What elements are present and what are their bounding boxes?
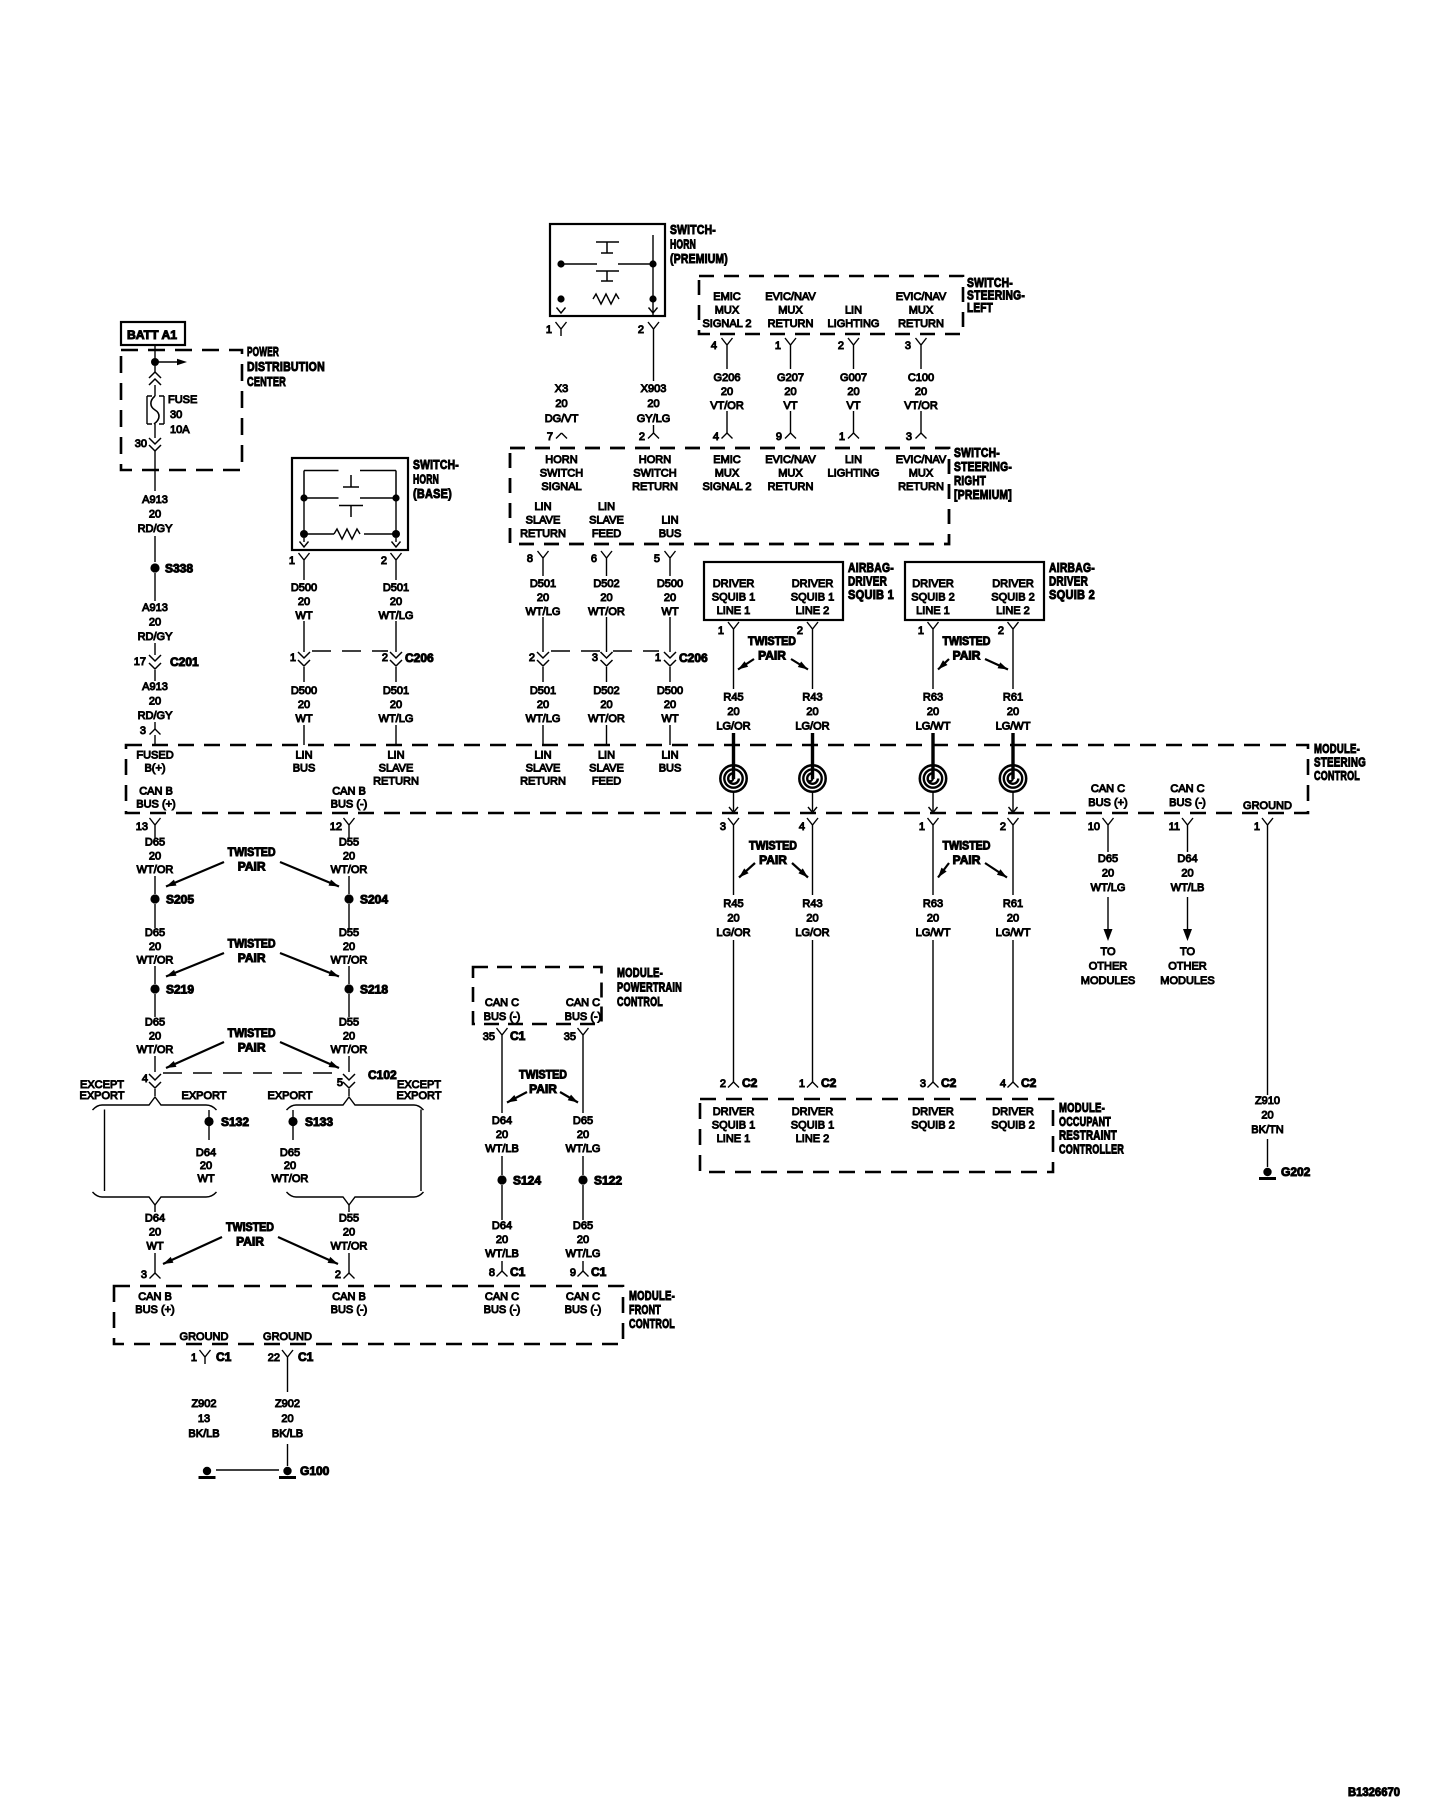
svg-text:SQUIB 1: SQUIB 1 [791, 592, 834, 604]
splice S204 [344, 894, 353, 903]
svg-text:SLAVE: SLAVE [526, 515, 561, 527]
wire below clockspring [812, 792, 814, 811]
svg-text:(PREMIUM): (PREMIUM) [670, 251, 728, 266]
svg-text:DRIVER: DRIVER [912, 578, 954, 590]
wire base left vertical [303, 498, 305, 531]
svg-text:HORN: HORN [670, 237, 696, 252]
svg-text:8: 8 [527, 553, 533, 565]
svg-text:22: 22 [268, 1352, 280, 1364]
svg-text:2: 2 [529, 652, 535, 664]
svg-text:EXPORT: EXPORT [181, 1090, 226, 1102]
svg-text:20: 20 [664, 699, 676, 711]
svg-text:MODULE-: MODULE- [617, 965, 663, 980]
wire premium right vertical [652, 235, 654, 261]
svg-text:17: 17 [134, 656, 146, 668]
node base mid left [300, 494, 307, 501]
svg-text:C201: C201 [170, 655, 199, 669]
svg-text:5: 5 [337, 1077, 343, 1089]
svg-text:20: 20 [1181, 868, 1193, 880]
svg-text:20: 20 [577, 1234, 589, 1246]
svg-text:1: 1 [919, 821, 925, 833]
wire squib twisted into clockspring [732, 733, 735, 779]
wire squib below module [932, 832, 934, 895]
svg-text:1: 1 [918, 625, 924, 637]
svg-text:RESTRAINT: RESTRAINT [1059, 1128, 1117, 1143]
svg-text:10: 10 [1088, 821, 1100, 833]
wire into module steering control LIN [303, 725, 305, 745]
svg-text:R45: R45 [723, 692, 743, 704]
svg-text:A913: A913 [142, 602, 168, 614]
arrow clockspring exit [1009, 807, 1018, 813]
svg-text:TWISTED: TWISTED [943, 839, 991, 853]
wire from steering-right pin [606, 565, 608, 576]
wire below C102 pin 4 [154, 1089, 156, 1096]
svg-text:20: 20 [298, 699, 310, 711]
svg-text:SLAVE: SLAVE [526, 763, 561, 775]
svg-text:D501: D501 [530, 685, 556, 697]
wire below clockspring [733, 792, 735, 811]
wire to splice S122 [582, 1156, 584, 1175]
wire from steering-right pin [669, 565, 671, 576]
svg-text:PAIR: PAIR [953, 853, 981, 867]
svg-text:20: 20 [149, 1227, 161, 1239]
wire below C206 left [303, 667, 305, 682]
svg-text:1: 1 [191, 1352, 197, 1364]
svg-text:EVIC/NAV: EVIC/NAV [896, 291, 947, 303]
svg-text:C206: C206 [679, 651, 708, 665]
svg-text:(BASE): (BASE) [413, 486, 452, 501]
svg-text:3: 3 [140, 725, 146, 737]
svg-text:20: 20 [298, 596, 310, 608]
svg-text:G202: G202 [1281, 1165, 1311, 1179]
svg-text:MUX: MUX [909, 305, 934, 317]
svg-text:TO: TO [1180, 946, 1196, 958]
svg-text:EVIC/NAV: EVIC/NAV [765, 454, 816, 466]
module steering control dashed box [126, 745, 1308, 813]
node junction in PDC [151, 358, 159, 366]
wire base right vertical [395, 498, 397, 531]
wire from base pin 2 [395, 567, 397, 580]
wire squib to ORC [812, 940, 814, 1082]
svg-text:20: 20 [806, 913, 818, 925]
wire chevron to fuse [154, 385, 156, 396]
wire base exits [303, 538, 305, 542]
wire squib to ORC [1012, 940, 1014, 1082]
svg-text:WT/OR: WT/OR [331, 955, 368, 967]
svg-text:2: 2 [335, 1269, 341, 1281]
svg-text:TWISTED: TWISTED [748, 634, 796, 648]
svg-text:CENTER: CENTER [247, 374, 286, 389]
svg-text:C206: C206 [405, 651, 434, 665]
svg-text:FUSED: FUSED [136, 750, 173, 762]
svg-text:BK/TN: BK/TN [1251, 1124, 1283, 1136]
svg-text:5: 5 [654, 553, 660, 565]
svg-text:12: 12 [330, 821, 342, 833]
wire C206 mating plane dashes left [312, 650, 388, 652]
wire from steering-left pin [920, 352, 922, 369]
svg-text:R43: R43 [802, 692, 822, 704]
wire split brace right [287, 1097, 424, 1110]
svg-text:POWER: POWER [247, 344, 279, 359]
battery feed BATT A1 box [121, 322, 185, 345]
svg-text:1: 1 [1254, 821, 1260, 833]
svg-text:2: 2 [382, 652, 388, 664]
svg-text:D64: D64 [1177, 853, 1197, 865]
svg-text:D55: D55 [339, 837, 359, 849]
wire below C206 [669, 667, 671, 682]
airbag driver squib 1 box [704, 562, 843, 620]
svg-text:VT: VT [846, 400, 860, 412]
wire ground from pin 1 [1267, 832, 1269, 1095]
svg-text:D65: D65 [145, 1017, 165, 1029]
svg-text:8: 8 [489, 1267, 495, 1279]
arrow base pin2 exit [392, 542, 401, 548]
svg-text:D64: D64 [145, 1213, 165, 1225]
svg-text:R43: R43 [802, 898, 822, 910]
svg-text:1: 1 [718, 625, 724, 637]
svg-text:LG/WT: LG/WT [996, 927, 1031, 939]
svg-text:30: 30 [135, 438, 147, 450]
wire from squib pin [932, 636, 934, 689]
svg-text:PAIR: PAIR [529, 1082, 557, 1096]
svg-text:A913: A913 [142, 494, 168, 506]
svg-text:WT/LG: WT/LG [379, 713, 414, 725]
svg-text:20: 20 [1007, 706, 1019, 718]
svg-text:20: 20 [149, 850, 161, 862]
switch-steering-left dashed box [699, 276, 963, 334]
svg-text:SWITCH-: SWITCH- [954, 445, 1000, 460]
svg-text:CAN C: CAN C [566, 1291, 600, 1303]
wire premium mid rail [561, 263, 597, 265]
svg-text:A913: A913 [142, 681, 168, 693]
ground left [203, 1467, 211, 1475]
svg-text:SQUIB 2: SQUIB 2 [911, 1120, 954, 1132]
svg-text:D55: D55 [339, 927, 359, 939]
wire to splice S204 [348, 876, 350, 894]
svg-text:20: 20 [537, 699, 549, 711]
wire squib below module [1012, 832, 1014, 895]
svg-text:20: 20 [1261, 1110, 1273, 1122]
svg-text:SWITCH: SWITCH [633, 468, 676, 480]
svg-text:SQUIB 1: SQUIB 1 [848, 587, 894, 602]
svg-text:MUX: MUX [715, 305, 740, 317]
wire CAN C from PCM right [582, 1042, 584, 1113]
splice S132 [204, 1117, 213, 1126]
wire below clockspring [932, 792, 934, 811]
wire to splice S219 [154, 966, 156, 984]
svg-text:SIGNAL: SIGNAL [541, 481, 581, 493]
svg-text:WT: WT [146, 1241, 163, 1253]
svg-text:20: 20 [149, 1030, 161, 1042]
arrow clockspring exit [929, 807, 938, 813]
svg-text:WT/OR: WT/OR [588, 713, 625, 725]
svg-text:SIGNAL 2: SIGNAL 2 [702, 318, 751, 330]
wire into steering-right [853, 411, 855, 433]
svg-text:LG/OR: LG/OR [795, 721, 829, 733]
svg-text:WT: WT [197, 1173, 214, 1185]
wire from pin 22 C1 [287, 1364, 289, 1392]
svg-text:LINE 1: LINE 1 [717, 605, 751, 617]
ground G202 [1263, 1168, 1271, 1176]
svg-text:1: 1 [546, 324, 552, 336]
svg-text:9: 9 [776, 431, 782, 443]
arrow clockspring exit [729, 807, 738, 813]
wire squib twisted into clockspring [811, 733, 814, 779]
svg-text:1: 1 [655, 652, 661, 664]
svg-text:GROUND: GROUND [263, 1331, 312, 1343]
svg-text:CAN C: CAN C [1091, 783, 1125, 795]
svg-text:30: 30 [170, 409, 182, 421]
svg-text:SQUIB 1: SQUIB 1 [712, 592, 755, 604]
splice S205 [150, 894, 159, 903]
svg-text:HORN: HORN [545, 454, 577, 466]
svg-text:VT/OR: VT/OR [904, 400, 938, 412]
wire from squib pin [733, 636, 735, 689]
svg-text:C1: C1 [510, 1265, 526, 1279]
fuse 30 10A [147, 396, 164, 424]
svg-text:WT/LG: WT/LG [566, 1143, 601, 1155]
wire into module steering control [542, 725, 544, 745]
svg-text:EMIC: EMIC [713, 291, 741, 303]
svg-text:R45: R45 [723, 898, 743, 910]
svg-text:TWISTED: TWISTED [519, 1068, 567, 1082]
wire squib to ORC [932, 940, 934, 1082]
svg-text:D65: D65 [1098, 853, 1118, 865]
wire below C206 [606, 667, 608, 682]
wire C102 mating plane dashes [163, 1072, 341, 1074]
svg-text:[PREMIUM]: [PREMIUM] [954, 487, 1012, 502]
svg-text:20: 20 [149, 696, 161, 708]
clockspring coil [1000, 765, 1026, 791]
svg-text:2: 2 [998, 625, 1004, 637]
wire split brace left [93, 1097, 217, 1110]
svg-text:WT/LG: WT/LG [526, 606, 561, 618]
horn switch premium upper contact [596, 242, 619, 253]
wire from squib pin [1012, 636, 1014, 689]
wire CAN C+ down arrow [1107, 897, 1109, 931]
svg-text:C2: C2 [742, 1076, 758, 1090]
svg-text:4: 4 [713, 431, 719, 443]
svg-text:R63: R63 [923, 692, 943, 704]
svg-text:1: 1 [290, 652, 296, 664]
svg-text:C1: C1 [510, 1029, 526, 1043]
svg-text:2: 2 [797, 625, 803, 637]
svg-text:D64: D64 [196, 1147, 216, 1159]
svg-text:MUX: MUX [778, 468, 803, 480]
wire to ground G100 [287, 1444, 289, 1466]
wire into front control pin 2 [348, 1253, 350, 1273]
svg-text:WT/OR: WT/OR [137, 864, 174, 876]
wire CAN C- from pin 11 [1187, 832, 1189, 852]
svg-text:2: 2 [720, 1078, 726, 1090]
wire CAN C from PCM left [501, 1042, 503, 1113]
node premium mid right [649, 260, 656, 267]
svg-text:D501: D501 [383, 685, 409, 697]
svg-text:PAIR: PAIR [758, 649, 786, 663]
svg-text:MODULES: MODULES [1160, 975, 1214, 987]
svg-text:1: 1 [289, 555, 295, 567]
wire below C206 [542, 667, 544, 682]
svg-text:WT/OR: WT/OR [588, 606, 625, 618]
svg-text:R63: R63 [923, 898, 943, 910]
svg-text:R61: R61 [1003, 692, 1023, 704]
svg-text:CONTROL: CONTROL [617, 994, 663, 1009]
svg-text:WT/LG: WT/LG [566, 1248, 601, 1260]
horn switch base lower contact [339, 506, 363, 518]
svg-text:D502: D502 [593, 578, 619, 590]
svg-text:CONTROLLER: CONTROLLER [1059, 1141, 1124, 1156]
svg-text:3: 3 [906, 431, 912, 443]
svg-text:DISTRIBUTION: DISTRIBUTION [247, 359, 325, 374]
svg-text:PAIR: PAIR [238, 1041, 266, 1055]
svg-text:G100: G100 [300, 1464, 330, 1478]
svg-text:D500: D500 [291, 685, 317, 697]
resistor horn premium [593, 294, 619, 304]
svg-text:20: 20 [343, 850, 355, 862]
wire to C206 left [303, 621, 305, 652]
svg-text:STEERING-: STEERING- [954, 459, 1012, 474]
svg-text:DRIVER: DRIVER [713, 578, 755, 590]
svg-text:CAN B: CAN B [332, 786, 366, 798]
wire CAN B+ from pin 13 [154, 832, 156, 838]
svg-text:LIN: LIN [387, 750, 404, 762]
svg-text:LINE 2: LINE 2 [796, 1133, 830, 1145]
svg-text:PAIR: PAIR [238, 860, 266, 874]
svg-text:2: 2 [638, 324, 644, 336]
svg-text:TWISTED: TWISTED [943, 634, 991, 648]
connector half chevrons (bus bar) top [149, 372, 161, 385]
svg-text:LIN: LIN [295, 750, 312, 762]
svg-text:LINE 1: LINE 1 [717, 1133, 751, 1145]
wire to splice S124 [501, 1156, 503, 1175]
wire into front control pin 8 [501, 1261, 503, 1271]
arrow premium pin2 exit [649, 308, 658, 314]
svg-text:LG/WT: LG/WT [916, 721, 951, 733]
svg-text:20: 20 [721, 386, 733, 398]
svg-text:PAIR: PAIR [236, 1235, 264, 1249]
horn switch premium lower contact [596, 271, 619, 281]
svg-text:RIGHT: RIGHT [954, 473, 986, 488]
switch-horn base box [292, 458, 408, 550]
svg-text:EXPORT: EXPORT [79, 1090, 124, 1102]
svg-text:LIGHTING: LIGHTING [828, 318, 880, 330]
wire squib twisted into clockspring [931, 733, 934, 779]
svg-text:SWITCH-: SWITCH- [670, 222, 716, 237]
power distribution center dashed box [121, 350, 242, 470]
wire to connector C206 [542, 617, 544, 652]
svg-text:EVIC/NAV: EVIC/NAV [896, 454, 947, 466]
svg-text:WT/LG: WT/LG [379, 610, 414, 622]
svg-text:SQUIB 2: SQUIB 2 [991, 1120, 1034, 1132]
wire to splice S205 [154, 876, 156, 894]
svg-text:20: 20 [496, 1129, 508, 1141]
wire CAN B- to front control [348, 1205, 350, 1212]
svg-text:PAIR: PAIR [759, 853, 787, 867]
wire export branch to S133 [292, 1110, 294, 1117]
node base bottom right [392, 530, 400, 538]
svg-text:SLAVE: SLAVE [379, 763, 414, 775]
svg-text:13: 13 [136, 821, 148, 833]
svg-text:RETURN: RETURN [768, 481, 814, 493]
resistor horn base [304, 533, 334, 535]
svg-text:GROUND: GROUND [180, 1331, 229, 1343]
wire to connector C206 [606, 617, 608, 652]
svg-text:G007: G007 [840, 372, 867, 384]
svg-text:C1: C1 [591, 1265, 607, 1279]
svg-text:S132: S132 [221, 1115, 249, 1129]
wire junction to fuse [154, 366, 156, 372]
svg-text:BUS (-): BUS (-) [565, 1304, 602, 1316]
svg-text:SLAVE: SLAVE [589, 515, 624, 527]
module powertrain control dashed box [473, 967, 602, 1024]
svg-text:SQUIB 2: SQUIB 2 [911, 592, 954, 604]
svg-text:6: 6 [591, 553, 597, 565]
svg-text:20: 20 [600, 592, 612, 604]
svg-text:HORN: HORN [413, 472, 439, 487]
wire to connector C206 [669, 617, 671, 652]
svg-text:LIN: LIN [598, 501, 615, 513]
svg-text:20: 20 [806, 706, 818, 718]
svg-text:D500: D500 [291, 582, 317, 594]
svg-text:20: 20 [390, 596, 402, 608]
svg-text:TWISTED: TWISTED [228, 845, 276, 859]
svg-text:3: 3 [592, 652, 598, 664]
svg-text:20: 20 [847, 386, 859, 398]
splice S122 [578, 1175, 587, 1184]
svg-text:C2: C2 [821, 1076, 837, 1090]
svg-text:SQUIB 2: SQUIB 2 [991, 592, 1034, 604]
svg-text:LG/OR: LG/OR [795, 927, 829, 939]
svg-text:DRIVER: DRIVER [912, 1106, 954, 1118]
svg-text:D65: D65 [145, 927, 165, 939]
svg-text:2: 2 [639, 431, 645, 443]
svg-text:CONTROL: CONTROL [1314, 768, 1360, 783]
svg-text:HORN: HORN [639, 454, 671, 466]
svg-text:CAN C: CAN C [485, 997, 519, 1009]
wire from steering-left pin [726, 352, 728, 369]
svg-text:MODULES: MODULES [1081, 975, 1135, 987]
wire below C102 pin 5 [348, 1089, 350, 1096]
svg-text:D65: D65 [573, 1220, 593, 1232]
svg-text:BUS (-): BUS (-) [484, 1011, 521, 1023]
svg-text:SLAVE: SLAVE [589, 763, 624, 775]
svg-text:BUS (-): BUS (-) [484, 1304, 521, 1316]
svg-text:B1326670: B1326670 [1348, 1785, 1400, 1799]
svg-text:20: 20 [555, 398, 567, 410]
svg-text:20: 20 [281, 1413, 293, 1425]
svg-text:BUS (-): BUS (-) [1169, 797, 1206, 809]
svg-text:20: 20 [600, 699, 612, 711]
svg-text:LG/WT: LG/WT [916, 927, 951, 939]
svg-text:4: 4 [142, 1073, 148, 1085]
horn switch base upper contact [343, 475, 359, 487]
svg-text:RETURN: RETURN [768, 318, 814, 330]
switch-horn premium box [550, 224, 665, 316]
svg-text:Z910: Z910 [1255, 1095, 1280, 1107]
svg-text:SQUIB 1: SQUIB 1 [712, 1120, 755, 1132]
svg-text:LIN: LIN [845, 454, 862, 466]
wire CAN B+ to front control [154, 1205, 156, 1212]
svg-text:BUS: BUS [659, 528, 682, 540]
wire C206 mating plane dashes [551, 650, 601, 652]
svg-text:BUS (+): BUS (+) [136, 799, 175, 811]
svg-text:4: 4 [711, 340, 717, 352]
svg-text:SQUIB 2: SQUIB 2 [1049, 587, 1095, 602]
module occupant restraint controller dashed box [700, 1099, 1053, 1172]
svg-text:LIGHTING: LIGHTING [828, 468, 880, 480]
svg-text:20: 20 [664, 592, 676, 604]
wire merge brace left [93, 1192, 217, 1205]
